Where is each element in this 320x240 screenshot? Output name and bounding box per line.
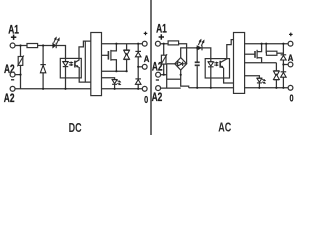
svg-text:DC: DC [69,121,82,135]
svg-text:0: 0 [290,92,294,103]
svg-text:A: A [144,54,150,64]
svg-text:AC: AC [218,121,231,135]
svg-text:0: 0 [144,94,148,105]
svg-text:A: A [288,53,294,63]
svg-text:A1: A1 [156,23,167,35]
svg-text:A2: A2 [4,93,15,105]
svg-text:A2: A2 [152,92,163,104]
